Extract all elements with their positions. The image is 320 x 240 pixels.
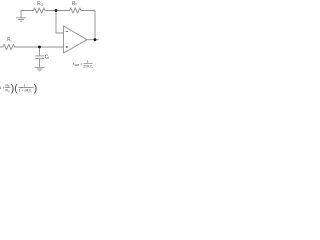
svg-text:)(: )( [11,83,18,94]
op-amp plus pin label [66,46,68,48]
wire feedback vertical [94,11,96,40]
svg-text:RG: RG [6,89,10,94]
wire ground to RG [21,10,34,12]
wire output [87,39,99,41]
svg-text:1: 1 [87,60,89,64]
resistor RG [34,8,46,13]
capacitor Ci [36,56,44,59]
resistor RF [70,8,82,13]
formula gain equation [0,83,37,94]
svg-text:RG: RG [37,1,44,7]
svg-text:1: 1 [24,83,26,87]
node A junction dot [55,9,58,12]
svg-text:1 + sRiCi: 1 + sRiCi [19,89,33,94]
svg-text:Ri: Ri [7,37,12,43]
resistor Ri [1,44,15,49]
svg-text:RF: RF [72,1,78,7]
svg-text:2πRiCi: 2πRiCi [83,64,93,69]
ground G1 (top left) [17,11,26,22]
svg-text:1 +: 1 + [0,86,5,90]
node OUT junction dot [94,38,97,41]
svg-text:f3dB =: f3dB = [73,61,83,67]
node B junction dot (Ri/Ci) [38,46,41,49]
wire cap stem bottom [39,59,41,68]
wire cap stem top [39,47,41,56]
ground G2 (below Ci) [35,67,44,70]
wire RF to right corner [81,10,95,12]
wire Ri to noninverting input [15,46,64,48]
label f3dB formula [73,60,93,69]
svg-text:Ci: Ci [45,54,50,60]
op-amp U1 triangle [64,26,88,53]
op-amp minus pin label [66,30,68,32]
wire node A down to inverting input [56,11,64,34]
svg-text:): ) [34,83,37,94]
wire node A to RF [56,10,70,12]
wire RG to node A [45,10,56,12]
